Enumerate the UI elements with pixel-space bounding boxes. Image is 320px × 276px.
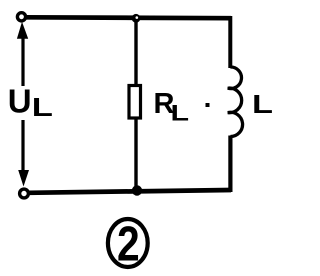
figure label 2 [108, 216, 148, 272]
voltage arrow U_L lower arrowhead [18, 170, 29, 187]
label R_L [154, 88, 190, 125]
svg-text:2: 2 [117, 216, 140, 272]
wire right branch bottom [228, 136, 232, 193]
voltage arrow U_L upper arrowhead [17, 22, 28, 39]
terminal top-left [17, 13, 25, 21]
inductor L coil [228, 67, 243, 137]
resistor R_L [129, 86, 141, 119]
wire top (left terminal to top-right corner) [25, 15, 231, 21]
node top junction [132, 14, 141, 23]
voltage arrow U_L upper shaft [21, 36, 24, 86]
svg-text:L: L [171, 101, 190, 126]
wire bottom [29, 190, 231, 193]
wire right branch top [228, 16, 232, 68]
voltage arrow U_L lower shaft [21, 120, 24, 174]
wire middle branch bottom [134, 118, 137, 191]
svg-text:L: L [32, 93, 53, 122]
junction dot bottom [132, 185, 142, 195]
terminal bottom-left [20, 189, 29, 198]
wire middle branch top [134, 21, 137, 86]
dot [206, 103, 210, 107]
svg-text:L: L [252, 90, 273, 119]
label U_L [8, 83, 53, 122]
svg-text:U: U [8, 83, 32, 120]
